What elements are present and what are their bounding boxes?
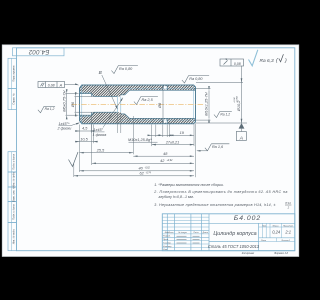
- svg-text:1. *Размеры выполняются после: 1. *Размеры выполняются после сборки.: [154, 183, 223, 187]
- svg-text:4,5: 4,5: [82, 127, 88, 131]
- svg-text:3. Неуказанные предельные откл: 3. Неуказанные предельные отклонения раз…: [154, 203, 275, 207]
- svg-text:Ra 0,80: Ra 0,80: [189, 77, 203, 81]
- svg-text:0,08: 0,08: [234, 62, 241, 66]
- svg-text:Ra 2,5: Ra 2,5: [142, 98, 154, 102]
- svg-text:Ø6: Ø6: [70, 101, 75, 108]
- svg-text:М10х1,25-8g*: М10х1,25-8g*: [128, 138, 152, 142]
- svg-text:2:1: 2:1: [284, 230, 291, 235]
- svg-text:Лит.: Лит.: [261, 225, 267, 227]
- svg-text:Лист: Лист: [260, 240, 266, 242]
- svg-text:глубину h=0,8...1 мм.: глубину h=0,8...1 мм.: [159, 195, 194, 199]
- svg-text:№ докум.: № докум.: [178, 231, 187, 234]
- svg-text:Инв. № подл.: Инв. № подл.: [13, 228, 16, 244]
- svg-text:Подп. и дата: Подп. и дата: [13, 204, 16, 220]
- svg-text:В: В: [99, 70, 102, 75]
- svg-text:25,5: 25,5: [96, 148, 105, 152]
- svg-text:10,5: 10,5: [80, 137, 88, 141]
- svg-text:Ra 1,2: Ra 1,2: [220, 112, 230, 116]
- svg-text:Дата: Дата: [202, 232, 209, 234]
- svg-text:Ø8: Ø8: [157, 102, 162, 109]
- svg-text:-0,62: -0,62: [145, 167, 151, 169]
- svg-text:Ra 6,3: Ra 6,3: [260, 58, 274, 64]
- svg-text:Ra 1,6: Ra 1,6: [212, 145, 224, 149]
- svg-text:Разраб.: Разраб.: [163, 236, 171, 238]
- svg-text:Масштаб: Масштаб: [283, 225, 293, 227]
- svg-text:2. Поверхность В цементирова: 2. Поверхность В цементировать до твердо…: [153, 190, 287, 194]
- svg-text:Б4.002: Б4.002: [234, 215, 261, 222]
- svg-text:-0,74: -0,74: [146, 171, 152, 174]
- svg-text:Масса: Масса: [273, 225, 280, 227]
- svg-text:Н.контр.: Н.контр.: [163, 246, 172, 248]
- svg-text:М10х1,25-7Н: М10х1,25-7Н: [203, 92, 208, 116]
- svg-text:27±0,21: 27±0,21: [165, 140, 179, 144]
- svg-text:Подп.: Подп.: [194, 231, 200, 234]
- svg-text:1х45°*: 1х45°*: [59, 122, 70, 126]
- svg-text:Подп. и дата: Подп. и дата: [13, 153, 16, 169]
- svg-text:Цилиндр корпуса: Цилиндр корпуса: [213, 231, 256, 237]
- svg-text:Копировал: Копировал: [242, 252, 255, 255]
- svg-text:+0,058: +0,058: [236, 95, 238, 103]
- svg-text:Сталь 45 ГОСТ 1050-2013: Сталь 45 ГОСТ 1050-2013: [208, 244, 260, 249]
- svg-text:Справ. №: Справ. №: [13, 93, 16, 105]
- svg-text:0,08: 0,08: [48, 84, 55, 88]
- svg-text:1х45°: 1х45°: [94, 128, 104, 132]
- svg-text:IT14: IT14: [285, 201, 291, 205]
- svg-text:+0,04: +0,04: [233, 97, 236, 103]
- svg-text:Ra 1,2: Ra 1,2: [45, 107, 55, 111]
- svg-text:Б4.002: Б4.002: [28, 48, 49, 55]
- svg-text:Ra 0,80: Ra 0,80: [119, 67, 133, 71]
- svg-text:Листов 1: Листов 1: [280, 240, 290, 242]
- svg-text:Взам. инв. №: Взам. инв. №: [13, 186, 16, 202]
- svg-text:А: А: [59, 84, 63, 88]
- svg-text:Т.контр.: Т.контр.: [163, 242, 172, 244]
- svg-text:): ): [284, 58, 287, 64]
- svg-text:0,24: 0,24: [272, 230, 281, 235]
- svg-text:Инв. № дубл.: Инв. № дубл.: [13, 172, 16, 188]
- svg-text:М6х0,75-7Н: М6х0,75-7Н: [62, 90, 67, 111]
- svg-text:1 фаска: 1 фаска: [93, 133, 107, 137]
- svg-text:2 фаски: 2 фаски: [57, 127, 72, 131]
- svg-text:Пров.: Пров.: [163, 239, 169, 241]
- svg-text:+0,62: +0,62: [167, 160, 174, 162]
- svg-text:Лист: Лист: [167, 232, 173, 234]
- svg-text:Перв. примен.: Перв. примен.: [13, 65, 16, 82]
- svg-text:Формат А3: Формат А3: [274, 252, 288, 255]
- svg-text:Утв.: Утв.: [163, 249, 168, 251]
- svg-text:А: А: [239, 135, 243, 141]
